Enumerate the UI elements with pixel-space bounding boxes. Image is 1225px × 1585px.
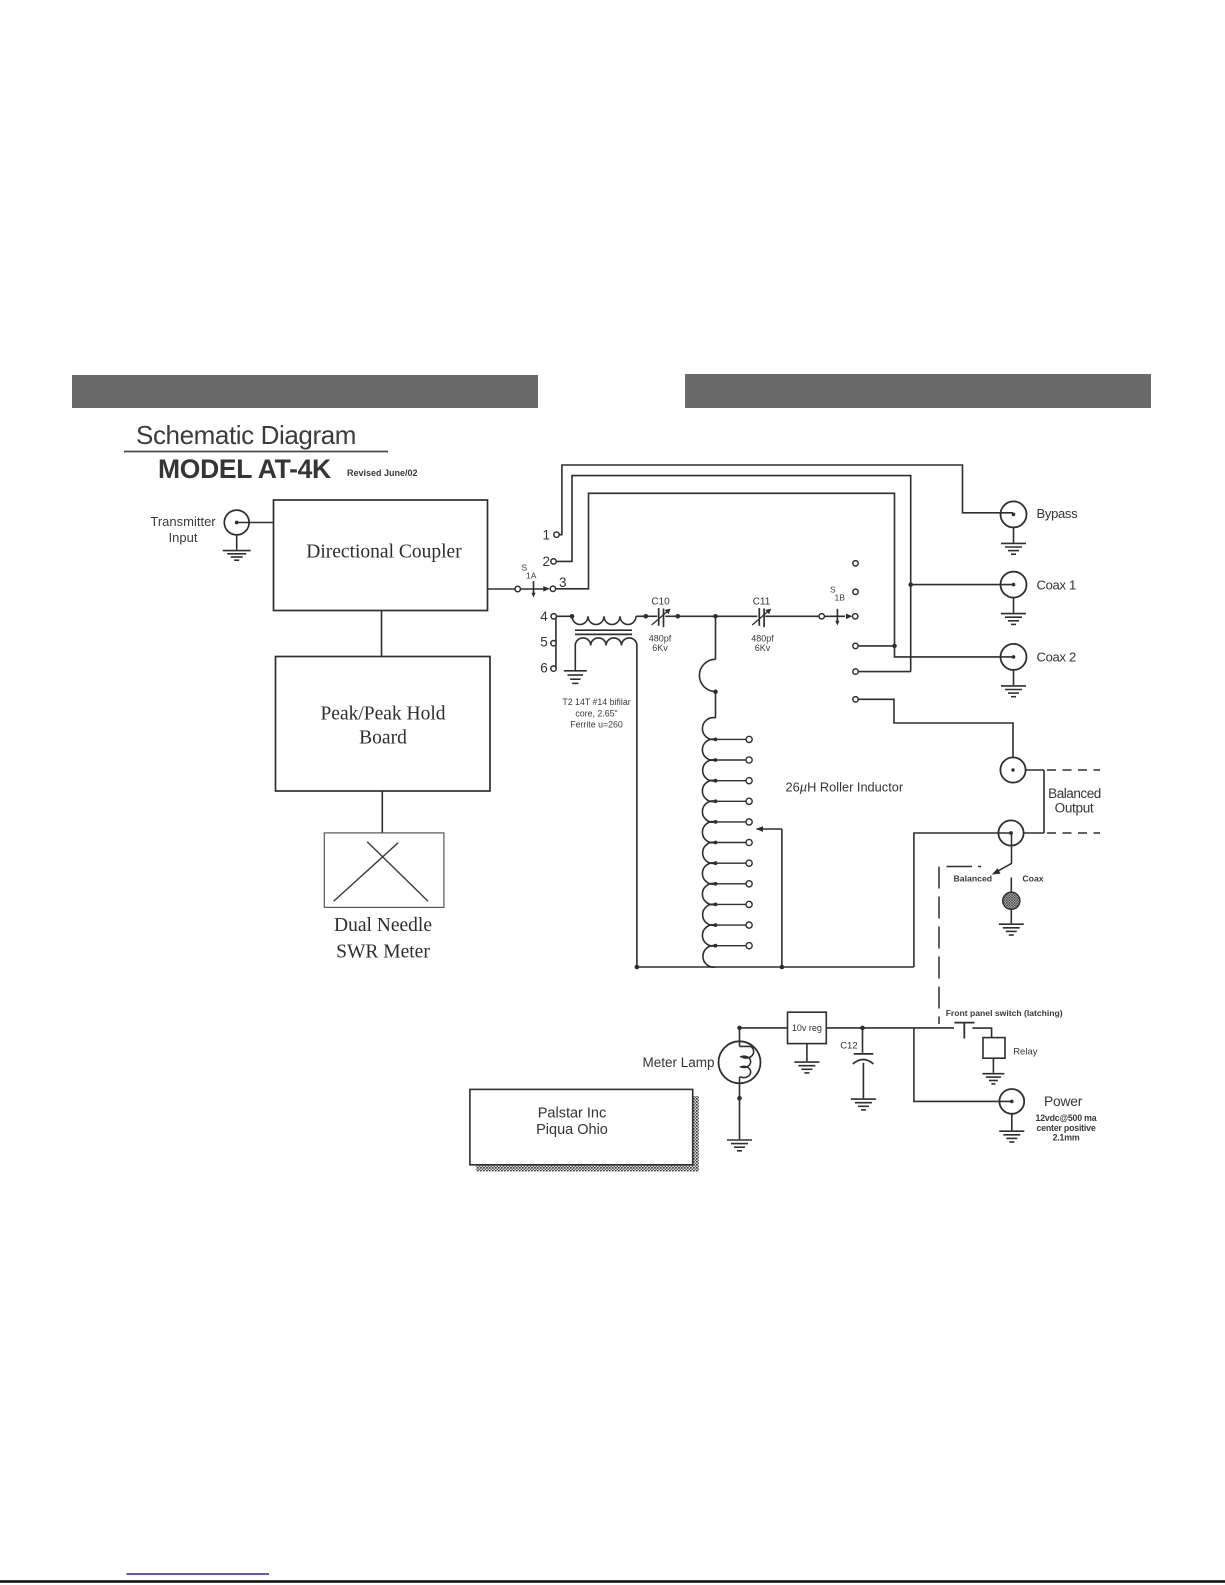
svg-text:Revised June/02: Revised June/02 [347, 468, 418, 478]
svg-text:Dual Needle: Dual Needle [334, 915, 432, 936]
svg-text:Peak/Peak Hold: Peak/Peak Hold [320, 704, 445, 725]
svg-text:26µH Roller Inductor: 26µH Roller Inductor [786, 780, 904, 795]
svg-text:6Kv: 6Kv [652, 643, 668, 653]
svg-text:Directional Coupler: Directional Coupler [306, 542, 462, 563]
svg-text:SWR Meter: SWR Meter [336, 942, 430, 963]
svg-text:Coax: Coax [1022, 874, 1043, 884]
svg-text:C10: C10 [651, 597, 670, 608]
svg-text:5: 5 [540, 634, 548, 649]
svg-text:12vdc@500 ma: 12vdc@500 ma [1036, 1113, 1097, 1123]
svg-text:3: 3 [559, 575, 567, 590]
svg-text:C11: C11 [753, 597, 771, 608]
svg-text:2: 2 [542, 554, 550, 569]
svg-text:6: 6 [540, 660, 548, 675]
svg-text:C12: C12 [840, 1041, 857, 1052]
svg-text:Relay: Relay [1013, 1047, 1038, 1058]
svg-text:480pf: 480pf [649, 633, 672, 643]
svg-text:1B: 1B [835, 593, 846, 603]
svg-text:Coax 1: Coax 1 [1037, 577, 1076, 592]
svg-text:6Kv: 6Kv [755, 643, 771, 653]
svg-text:Meter Lamp: Meter Lamp [643, 1055, 715, 1070]
svg-text:Bypass: Bypass [1037, 506, 1079, 521]
svg-text:Power: Power [1044, 1094, 1083, 1109]
svg-text:core, 2.65": core, 2.65" [575, 708, 617, 718]
svg-text:Output: Output [1055, 801, 1094, 816]
svg-text:1A: 1A [526, 571, 537, 581]
svg-text:Balanced: Balanced [1048, 786, 1101, 801]
svg-text:Coax 2: Coax 2 [1037, 650, 1076, 665]
svg-text:Balanced: Balanced [953, 874, 992, 884]
svg-text:4: 4 [540, 609, 548, 624]
svg-text:MODEL AT-4K: MODEL AT-4K [158, 454, 331, 484]
svg-text:Transmitter: Transmitter [150, 514, 216, 529]
svg-text:480pf: 480pf [751, 633, 774, 643]
svg-text:Palstar Inc: Palstar Inc [538, 1106, 607, 1122]
svg-text:Ferrite u=260: Ferrite u=260 [570, 720, 623, 730]
svg-text:Schematic Diagram: Schematic Diagram [136, 420, 356, 450]
svg-text:center positive: center positive [1036, 1123, 1095, 1133]
svg-text:Piqua Ohio: Piqua Ohio [536, 1122, 608, 1138]
svg-text:1: 1 [542, 528, 550, 543]
svg-text:Input: Input [169, 530, 198, 545]
svg-text:2.1mm: 2.1mm [1053, 1133, 1080, 1143]
svg-text:Front panel switch (latching): Front panel switch (latching) [946, 1008, 1063, 1018]
svg-text:T2 14T #14 bifilar: T2 14T #14 bifilar [562, 697, 630, 707]
svg-text:10v reg: 10v reg [792, 1023, 822, 1033]
svg-text:Board: Board [359, 728, 407, 749]
